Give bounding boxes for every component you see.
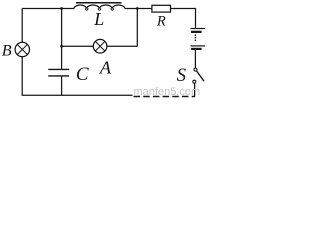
lamp A cross <box>95 41 105 51</box>
wire right vertical to battery <box>195 8 197 28</box>
wire left vertical upper (top wire to lamp B) <box>21 9 23 43</box>
wire left vertical lower (lamp B to bottom wire) <box>21 57 23 96</box>
inductor L coil dip 3 <box>111 8 114 10</box>
bottom wire right dark dashes under watermark <box>134 96 196 98</box>
svg-text:S: S <box>177 66 186 86</box>
inductor L coil dip 1 <box>85 8 88 10</box>
junction dot top-right of parallel section <box>136 7 139 10</box>
wire branch right (lamp A to right vertical) <box>107 45 137 47</box>
resistor R box <box>152 5 171 12</box>
switch S blade <box>197 71 205 81</box>
bottom wire left solid <box>22 94 133 96</box>
battery cell dots <box>195 34 197 41</box>
wire parallel-section left vertical <box>61 9 63 47</box>
switch to bottom wire <box>194 83 196 96</box>
lamp B circle <box>15 42 29 56</box>
wire parallel-section right vertical <box>136 9 138 47</box>
wire top between coil and resistor <box>125 8 152 10</box>
battery thick plate 1 <box>191 31 202 33</box>
inductor L coil <box>74 5 125 8</box>
svg-text:B: B <box>2 42 12 60</box>
wire top-left segment <box>22 8 74 10</box>
switch S upper contact <box>194 68 197 71</box>
battery to switch wire <box>194 50 196 68</box>
lamp A circle <box>93 39 107 53</box>
inductor core bar <box>76 2 122 4</box>
battery thick plate 2 <box>191 48 202 50</box>
junction dot branch-capacitor <box>60 45 63 48</box>
battery long plate 2 <box>191 45 206 47</box>
svg-text:A: A <box>99 58 112 78</box>
battery long plate 1 <box>191 28 206 30</box>
junction dot top-left of parallel section <box>60 7 63 10</box>
wire top-right segment <box>171 8 196 10</box>
lamp B cross <box>17 44 27 54</box>
svg-text:R: R <box>156 13 166 29</box>
inductor L coil dip 2 <box>98 8 101 10</box>
capacitor C top lead <box>61 46 63 69</box>
capacitor C top plate <box>48 68 69 70</box>
capacitor C bottom lead <box>61 77 63 96</box>
svg-text:L: L <box>93 9 104 29</box>
wire branch left (junction to lamp A) <box>62 45 94 47</box>
svg-text:C: C <box>76 64 89 85</box>
capacitor C bottom plate <box>48 75 69 77</box>
switch S lower contact <box>193 80 196 83</box>
